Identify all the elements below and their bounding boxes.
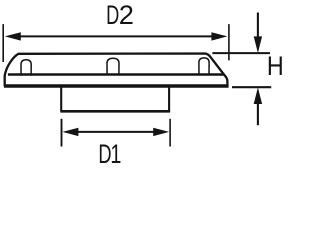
svg-text:H: H <box>267 52 284 82</box>
svg-text:D: D <box>98 138 111 168</box>
svg-text:1: 1 <box>110 139 121 169</box>
svg-text:2: 2 <box>119 0 134 30</box>
svg-text:D: D <box>106 0 119 30</box>
